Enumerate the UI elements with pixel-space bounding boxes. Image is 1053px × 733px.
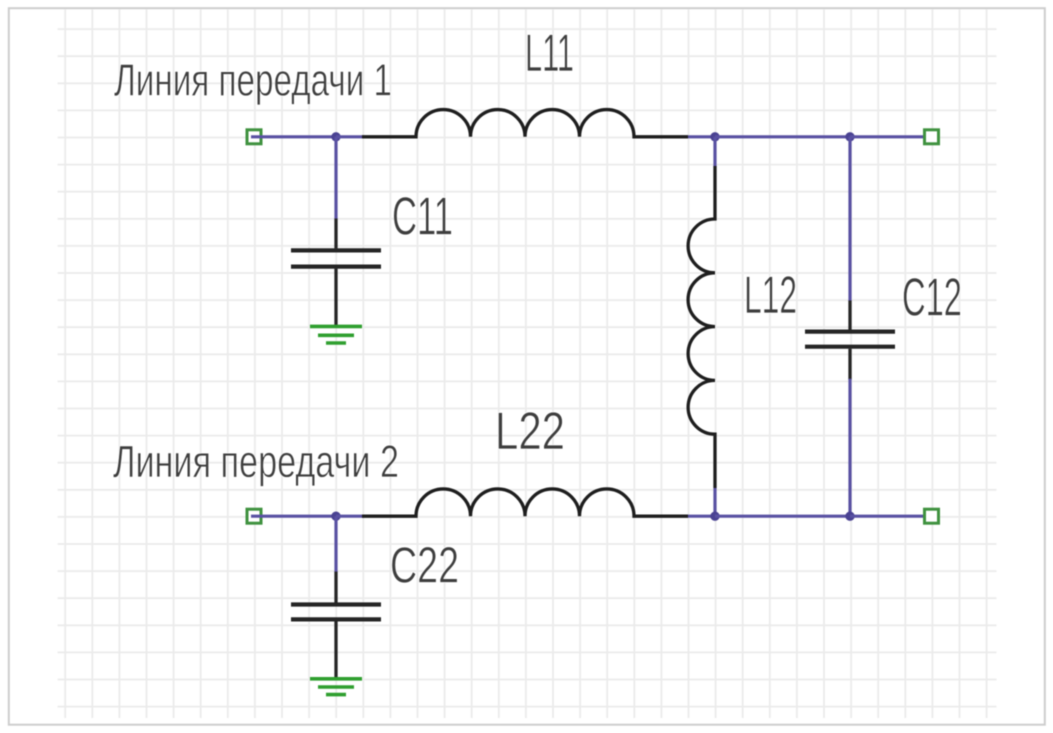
port P2 (right, net 1)	[925, 130, 939, 144]
ground for C11	[310, 326, 362, 343]
wire node B to node C	[715, 135, 850, 138]
port P1 (left, net 1)	[247, 130, 261, 144]
wire node F to port P4	[850, 515, 932, 518]
inductor L11	[362, 110, 688, 137]
capacitor C11	[291, 219, 381, 326]
port P4 (right, net 2)	[925, 509, 939, 523]
wire L11 to node B	[688, 135, 715, 138]
port P3 (left, net 2)	[247, 509, 261, 523]
wire port P3 to node D	[251, 515, 336, 518]
node F junction	[845, 512, 854, 521]
wire node A down to C11	[334, 137, 337, 219]
svg-text:L11: L11	[525, 24, 574, 83]
svg-text:C12: C12	[902, 268, 962, 328]
inductor L12	[688, 166, 715, 488]
wire node C down to C12	[848, 137, 851, 301]
inductor L22	[362, 489, 688, 516]
svg-text:Линия передачи 1: Линия передачи 1	[114, 55, 392, 106]
wire L12 to node E	[713, 488, 716, 516]
wire port P1 to node A	[251, 135, 336, 138]
wire node C to port P2	[850, 135, 932, 138]
wire node D down to C22	[334, 516, 337, 572]
node C junction	[845, 132, 854, 141]
svg-text:L12: L12	[744, 266, 797, 325]
capacitor C22	[291, 572, 381, 678]
node E junction	[710, 512, 719, 521]
svg-text:L22: L22	[495, 402, 565, 461]
wire node D to L22	[336, 515, 364, 518]
wire node B down to L12	[713, 137, 716, 167]
node B junction	[710, 132, 719, 141]
wire L22 to node E	[688, 515, 715, 518]
svg-text:Линия передачи 2: Линия передачи 2	[113, 436, 399, 487]
wire node A to L11	[336, 135, 364, 138]
svg-text:C11: C11	[392, 187, 453, 247]
svg-text:C22: C22	[390, 537, 459, 594]
wire node E to node F	[715, 515, 850, 518]
node A junction	[331, 132, 340, 141]
ground for C22	[310, 679, 362, 695]
wire C12 to node F	[848, 379, 851, 516]
capacitor C12	[805, 301, 895, 380]
node D junction	[331, 512, 340, 521]
